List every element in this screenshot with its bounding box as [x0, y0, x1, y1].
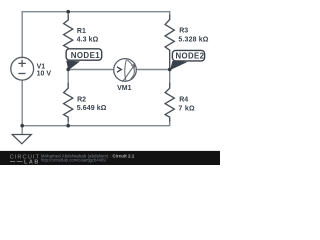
- svg-text:R1: R1: [77, 28, 86, 35]
- svg-text:R3: R3: [179, 28, 188, 35]
- svg-text:http://circuitlab.com/c/aartjg: http://circuitlab.com/c/aartjgcb4469: [41, 158, 106, 163]
- svg-text:NODE2: NODE2: [176, 51, 205, 60]
- svg-text:5.649 kΩ: 5.649 kΩ: [77, 105, 107, 112]
- svg-text:VM1: VM1: [117, 85, 132, 92]
- svg-text:R4: R4: [179, 96, 188, 103]
- svg-text:10 V: 10 V: [37, 71, 52, 78]
- svg-text:7 kΩ: 7 kΩ: [178, 105, 195, 112]
- svg-text:4.3 kΩ: 4.3 kΩ: [77, 36, 99, 43]
- svg-text:5.328 kΩ: 5.328 kΩ: [178, 37, 208, 44]
- svg-text:LAB: LAB: [24, 160, 40, 165]
- svg-text:R2: R2: [77, 96, 86, 103]
- svg-text:NODE1: NODE1: [71, 51, 101, 60]
- svg-text:V1: V1: [37, 64, 46, 71]
